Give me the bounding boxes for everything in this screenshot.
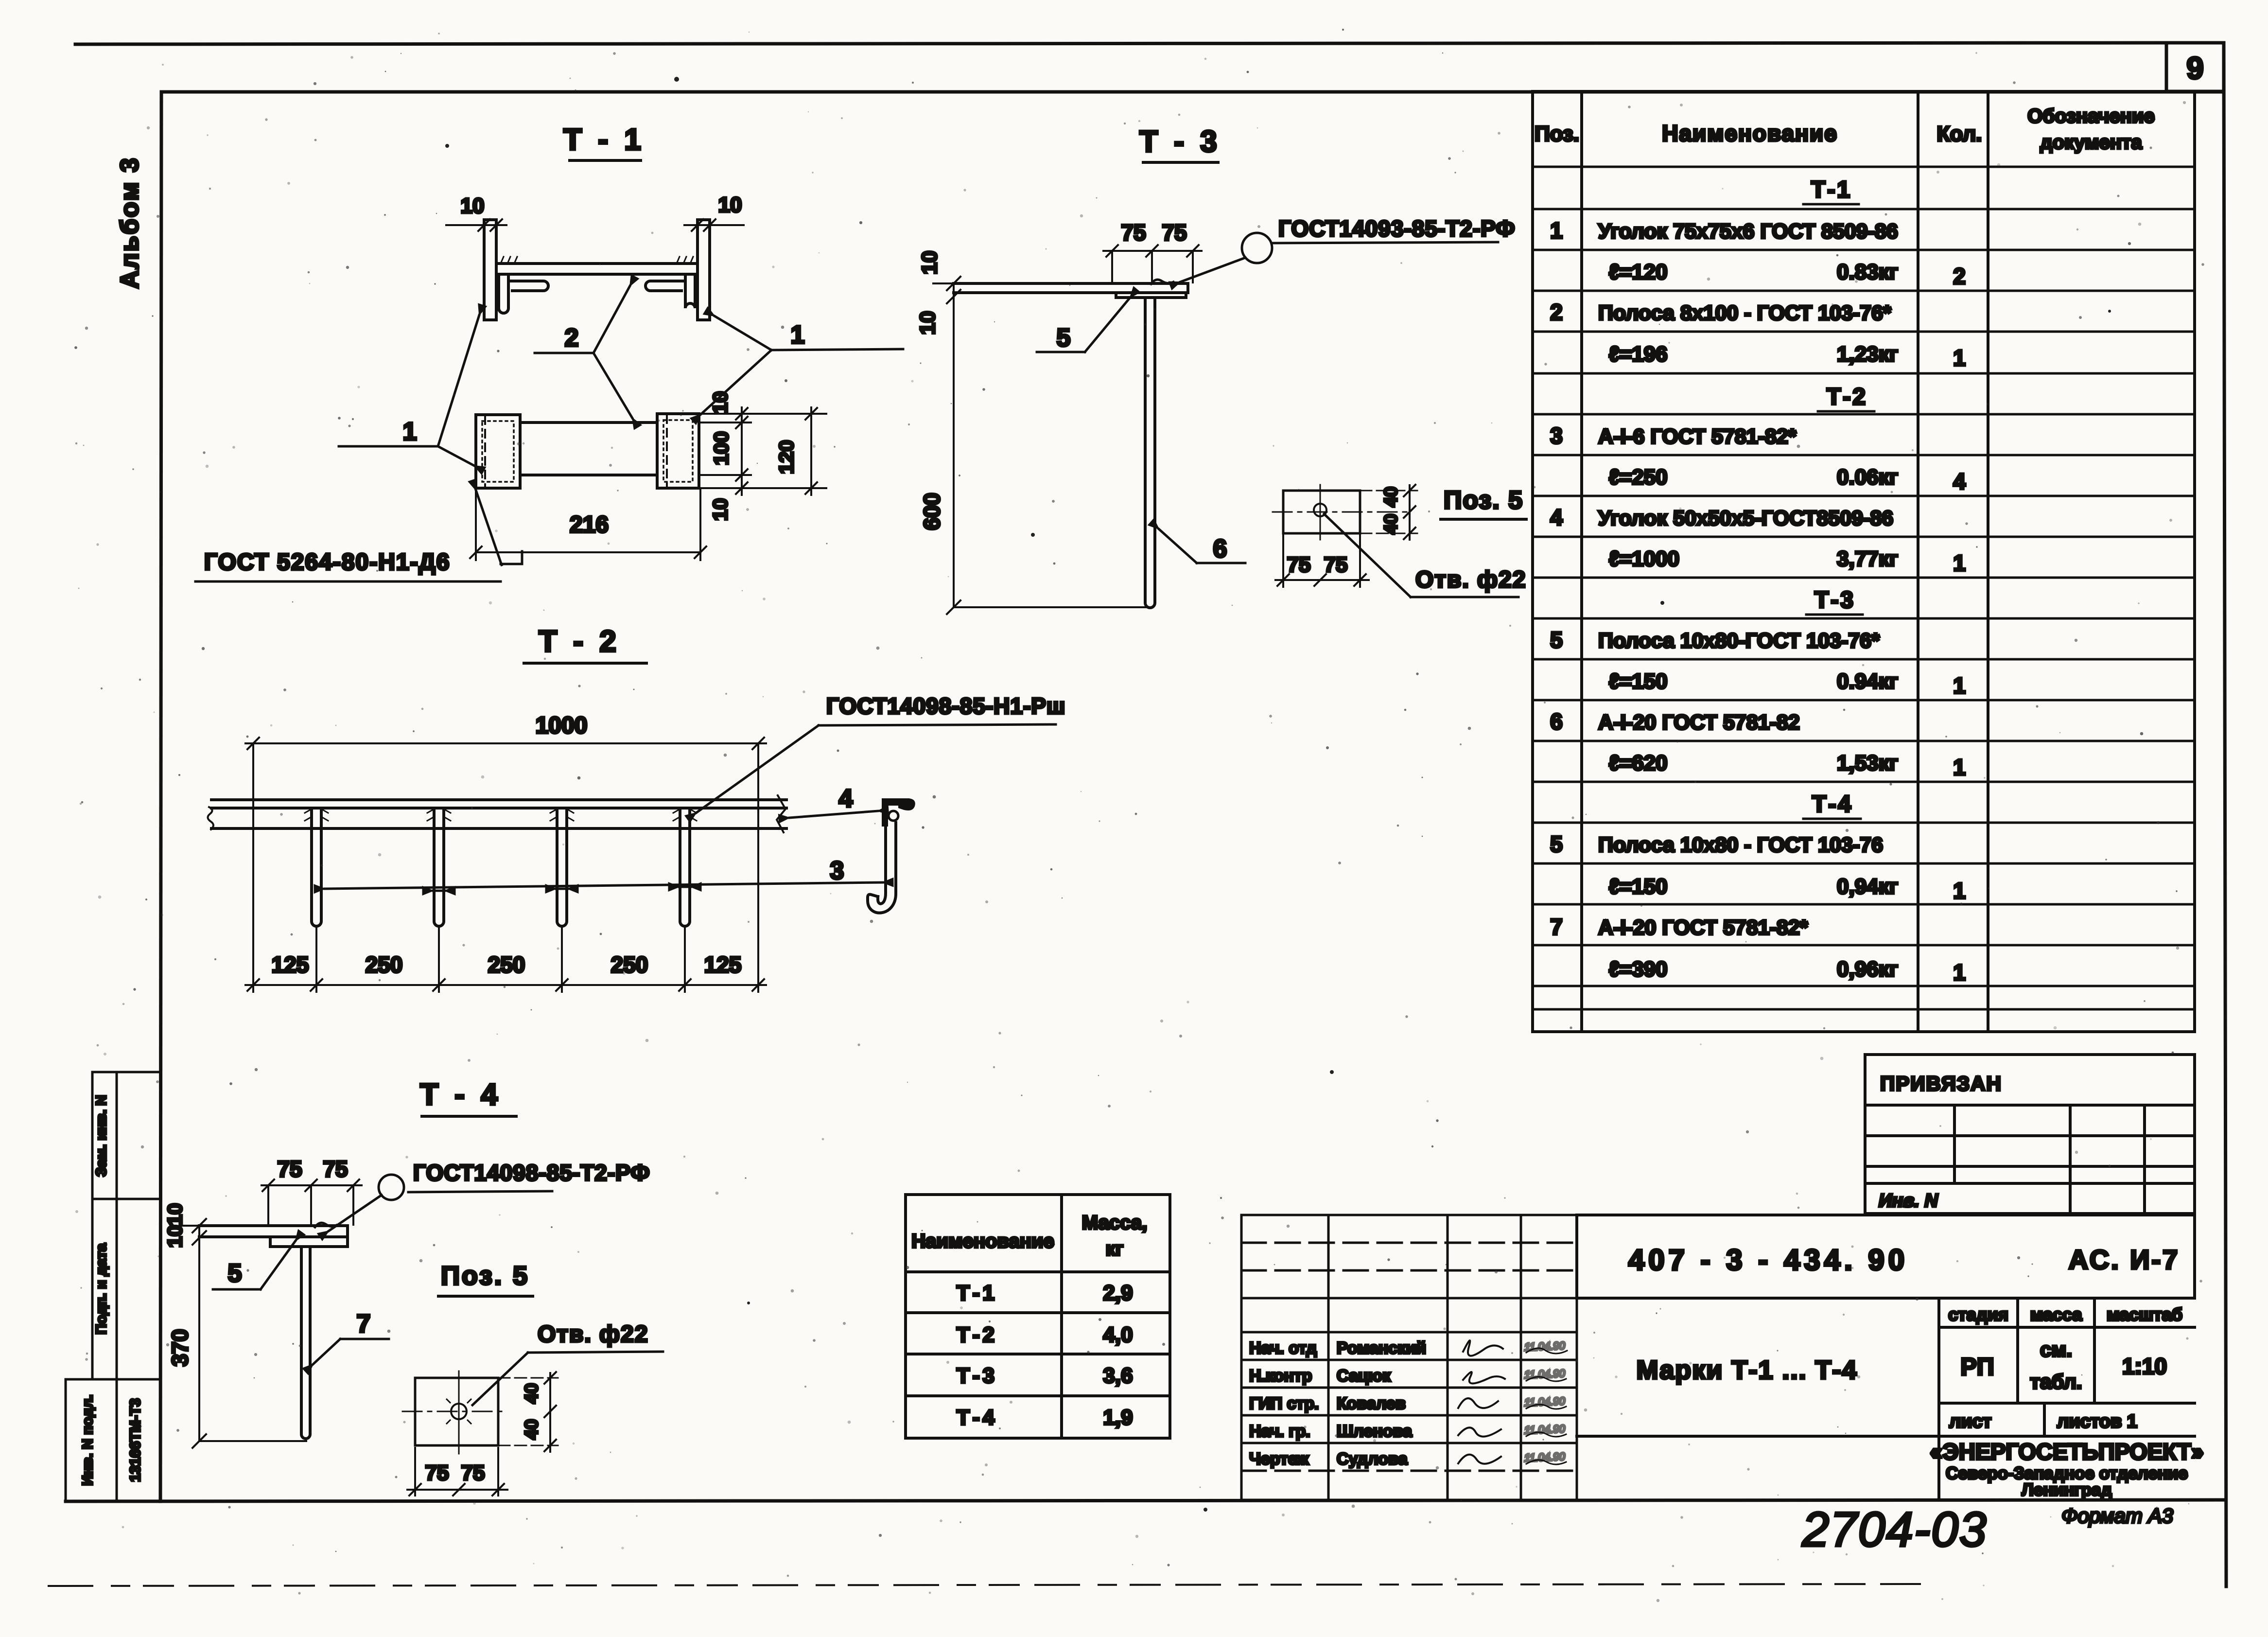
sheet row [1949,1411,2137,1432]
svg-text:Шленова: Шленова [1337,1422,1413,1441]
svg-text:100: 100 [710,431,733,465]
svg-text:ПРИВЯЗАН: ПРИВЯЗАН [1880,1072,2002,1095]
svg-text:масса: масса [2030,1304,2083,1324]
svg-text:Т-1: Т-1 [1811,177,1852,203]
svg-text:11.04.90: 11.04.90 [1524,1367,1566,1381]
svg-text:11.04.90: 11.04.90 [1524,1423,1566,1436]
svg-text:3: 3 [830,857,844,885]
svg-text:масштаб: масштаб [2107,1304,2182,1324]
svg-text:75: 75 [425,1461,449,1485]
svg-text:4: 4 [839,785,853,813]
svg-text:10: 10 [709,391,732,414]
row 6 length/mass, qty 1 [1609,751,1966,780]
T-2 anchor rod 3 [557,808,567,926]
T-3 Поз.5 plate detail rect [1273,485,1410,540]
svg-text:ℓ=150: ℓ=150 [1609,875,1668,898]
title block grid: stage/mass/scale [1577,1298,2195,1500]
T-4 weld symbol circle with leader [329,1175,404,1231]
T-3 weld symbol circle with leader [1180,233,1272,282]
T-2 view title [524,625,646,663]
svg-text:Поз. 5: Поз. 5 [441,1261,529,1290]
svg-text:Т-3: Т-3 [1814,587,1855,613]
svg-text:Марки Т-1 ... Т-4: Марки Т-1 ... Т-4 [1637,1355,1858,1385]
svg-text:0,94кг: 0,94кг [1837,875,1898,898]
parts table header [1535,106,2155,153]
svg-text:5: 5 [228,1259,242,1287]
T-3 Поз.5 hole [1314,504,1326,516]
svg-text:75: 75 [1287,553,1311,577]
svg-text:Т-2: Т-2 [1827,384,1867,410]
svg-text:1: 1 [1953,550,1966,576]
privjazan (linked) stamp box [1865,1055,2195,1214]
T-3 weld spec ГОСТ14093-85-Т2-РФ [1272,216,1515,243]
svg-text:1: 1 [1953,960,1966,985]
row 7: А-I-20 [1550,914,1808,939]
bottom page dashed edge line [49,1584,1920,1586]
signature row: ГИП стр. Ковалев [1249,1394,1566,1413]
svg-text:1:10: 1:10 [2122,1354,2167,1379]
svg-text:«ЭНЕРГОСЕТЬПРОЕКТ»: «ЭНЕРГОСЕТЬПРОЕКТ» [1930,1439,2204,1464]
svg-text:1,9: 1,9 [1103,1406,1133,1429]
svg-text:АС. И-7: АС. И-7 [2069,1244,2180,1275]
page right border line [2224,43,2226,1586]
T-3 left dims 10 10 and 600 [916,251,1151,614]
T-1 section: strip item 2 (two horizontal lines) [496,264,698,274]
T-4 weld squiggle at stem joint [315,1223,336,1227]
T-1 position label 1 (right) with leaders [701,316,903,414]
svg-text:1: 1 [1550,218,1563,243]
svg-text:листов 1: листов 1 [2057,1411,2137,1432]
svg-text:4,0: 4,0 [1103,1323,1133,1347]
T-1 section: left angle item 1 [499,276,548,313]
svg-text:10: 10 [916,311,940,335]
svg-text:Инв. N подл.: Инв. N подл. [80,1394,96,1485]
svg-text:10: 10 [709,498,732,521]
row 4: Уголок 50х50х5 [1550,505,1893,530]
svg-text:11.04.90: 11.04.90 [1524,1339,1566,1353]
svg-text:11.04.90: 11.04.90 [1524,1395,1566,1408]
svg-text:ℓ=620: ℓ=620 [1609,751,1668,775]
svg-text:ℓ=250: ℓ=250 [1609,465,1668,489]
svg-text:Альбом 3: Альбом 3 [116,157,144,289]
T-1 dim 216 [470,490,706,560]
row 1 length/mass, qty 2 [1609,260,1966,289]
svg-text:75: 75 [323,1156,348,1181]
svg-text:ℓ=196: ℓ=196 [1609,342,1668,366]
T-1 section: right angle item 1 [646,276,695,308]
row 5: Полоса 10х80 [1550,627,1880,652]
svg-text:Т-4: Т-4 [957,1406,997,1429]
sheet number box "9" top right [2166,43,2224,91]
T-3 Поз.5 dim 75 75 bottom [1275,533,1369,587]
svg-text:3,6: 3,6 [1103,1364,1133,1388]
svg-text:Ковалев: Ковалев [1337,1394,1406,1413]
T-4 Поз.5 dim 75 75 bottom [407,1448,507,1496]
svg-text:216: 216 [570,512,609,538]
svg-text:Т-3: Т-3 [957,1364,997,1388]
T-2 bottom dims 125/250/250/250/125 [245,926,766,992]
T-1 view title [563,123,645,160]
mass row Т-1 [957,1281,1133,1305]
svg-text:75: 75 [1162,220,1186,245]
row 1: Уголок 75х75х6 [1550,218,1898,243]
svg-text:1: 1 [1953,755,1966,780]
svg-text:75: 75 [1121,220,1146,245]
svg-text:Ленинград: Ленинград [2022,1480,2111,1499]
T-2 weld spec ГОСТ14098-85-Н1-Рш with leader [696,693,1065,813]
svg-text:125: 125 [704,952,742,977]
svg-text:600: 600 [919,493,944,530]
mass summary table grid [906,1195,1170,1438]
row 5 length/mass, qty 1 [1609,669,1966,698]
T-4 stem item 7 (rod) [301,1247,310,1439]
T-1 dim 10 (left plate thickness) [446,194,506,231]
svg-text:Чертеж: Чертеж [1249,1450,1309,1468]
mass row Т-3 [957,1364,1133,1388]
svg-text:ГОСТ14093-85-Т2-РФ: ГОСТ14093-85-Т2-РФ [1278,216,1515,241]
svg-text:Романский: Романский [1337,1339,1426,1357]
svg-text:Наименование: Наименование [1662,121,1837,146]
T-3 position label 6 with leader [1159,529,1245,563]
svg-text:120: 120 [775,440,798,474]
row 2: Полоса 8х100 [1550,299,1891,325]
svg-text:Поз. 5: Поз. 5 [1444,486,1523,514]
row 3 length/mass, qty 4 [1609,465,1966,494]
T-2 position label 4 with arrow line [789,785,878,818]
svg-text:1: 1 [791,321,805,349]
T-2 strip item 4 (edge view, three lines) [208,795,786,832]
svg-text:40: 40 [522,1419,542,1440]
svg-text:0.94кг: 0.94кг [1837,669,1898,693]
svg-text:7: 7 [1550,914,1563,939]
T-3 view title [1139,125,1221,162]
T-2 position label 3 with arrow line [325,857,883,891]
svg-text:40: 40 [522,1383,542,1404]
svg-text:табл.: табл. [2030,1370,2082,1393]
svg-text:1,23кг: 1,23кг [1837,342,1898,366]
svg-text:125: 125 [272,952,309,977]
T-4 lower bar under plate [270,1237,348,1247]
T-3 stem item 6 (rod) [1145,298,1155,608]
svg-text:Подп. и дата: Подп. и дата [93,1243,109,1335]
T-2 dim 1000 top [245,713,766,992]
svg-text:ℓ=150: ℓ=150 [1609,669,1668,693]
svg-text:10: 10 [163,1225,186,1248]
svg-text:РП: РП [1960,1353,1994,1380]
svg-text:А-I-20 ГОСТ 5781-82*: А-I-20 ГОСТ 5781-82* [1598,916,1808,939]
signature row: Нач. отд Романский [1249,1339,1567,1357]
svg-text:1: 1 [403,418,417,446]
svg-text:0.06кг: 0.06кг [1837,465,1898,489]
svg-text:Т - 2: Т - 2 [539,625,620,658]
mass row Т-4 [957,1406,1133,1429]
svg-text:Наименование: Наименование [911,1231,1054,1252]
left margin stamp box "Зам.инв.N" [92,1072,160,1199]
svg-text:Сацюк: Сацюк [1337,1367,1391,1385]
svg-text:5: 5 [1550,627,1563,652]
svg-text:2: 2 [1550,299,1563,325]
row 3: А-I-6 [1550,423,1797,448]
T-1 section: left end plate (item 1 flange) [484,220,496,320]
svg-text:2: 2 [565,324,579,352]
T-3 Поз.5 detail title [1441,486,1526,519]
parts table subtitle Т-3 [1806,587,1863,615]
svg-text:7: 7 [357,1310,371,1338]
svg-text:2: 2 [1953,264,1966,289]
T-4 Поз.5 detail title [438,1261,533,1296]
svg-text:см.: см. [2040,1338,2072,1361]
svg-text:документа: документа [2040,132,2142,153]
row 6: А-I-20 [1550,709,1799,734]
T-1 right dim 120 [775,407,817,495]
svg-text:10: 10 [461,194,485,218]
svg-text:5: 5 [1057,324,1071,352]
svg-text:11.04.90: 11.04.90 [1524,1450,1566,1464]
row 5b: Полоса 10х80 [1550,831,1883,857]
left margin stamp box "Инв.N подл." / "13166ТМ-Т3" [66,1379,160,1501]
svg-text:2704-03: 2704-03 [1802,1502,1988,1557]
svg-text:250: 250 [611,952,648,977]
row 5b length/mass, qty 1 [1609,875,1966,903]
svg-text:75: 75 [461,1461,485,1485]
svg-text:Обозначение: Обозначение [2027,106,2154,127]
svg-text:Т-4: Т-4 [1812,792,1853,817]
svg-text:ГОСТ14098-85-Н1-Рш: ГОСТ14098-85-Н1-Рш [826,693,1065,719]
svg-text:Н.контр: Н.контр [1249,1367,1312,1385]
T-4 Отв. ф22 label with leader [472,1321,663,1405]
T-2 anchor hook detail (items 3/4) [868,798,915,913]
svg-text:лист: лист [1949,1411,1991,1432]
row 4 length/mass, qty 1 [1609,547,1966,576]
svg-text:40: 40 [1381,514,1401,534]
svg-text:10: 10 [163,1203,186,1226]
svg-text:Кол.: Кол. [1937,122,1982,146]
svg-text:0,96кг: 0,96кг [1837,957,1898,981]
svg-text:4: 4 [1953,469,1966,494]
T-3 Отв. ф22 label with leader [1324,514,1526,597]
row 7 length/mass, qty 1 [1609,957,1966,985]
svg-text:Полоса 8х100 - ГОСТ 103-76*: Полоса 8х100 - ГОСТ 103-76* [1598,301,1891,325]
svg-text:Нач. гр.: Нач. гр. [1249,1422,1310,1441]
svg-text:стадия: стадия [1948,1304,2008,1324]
svg-text:9: 9 [2186,51,2204,86]
T-1 position label 1 (left) with leaders [339,315,479,466]
T-1 weld spec ГОСТ 5264-80-Н1-Д6 with leader [195,490,522,581]
left margin stamp box "Подп. и дата" [92,1199,160,1379]
T-4 position label 5 with leader [213,1241,296,1289]
svg-text:250: 250 [488,952,525,977]
parts table subtitle Т-2 [1818,384,1874,411]
svg-text:Инв. N: Инв. N [1879,1191,1938,1211]
svg-text:ГОСТ14098-85-Т2-РФ: ГОСТ14098-85-Т2-РФ [413,1160,650,1185]
svg-text:6: 6 [1213,535,1227,563]
T-4 view title [420,1078,516,1116]
T-4 weld spec ГОСТ14098-85-Т2-РФ [408,1160,650,1192]
T-3 dims 75 75 top [1103,220,1202,282]
T-3 top plate item 5 (edge view) [954,283,1188,293]
T-4 dims 75 75 top [262,1156,362,1225]
T-3 weld squiggle at stem joint [1151,280,1173,284]
T-1 plan: right end plate with weld hatch [657,414,699,488]
svg-text:10: 10 [718,193,742,217]
svg-text:Нач. отд: Нач. отд [1249,1339,1317,1357]
svg-text:1,53кг: 1,53кг [1837,751,1898,775]
T-3 lower bar under plate [1116,293,1186,298]
svg-text:кг: кг [1106,1238,1124,1260]
svg-text:1: 1 [1953,878,1966,903]
parts list table grid [1533,91,2195,1032]
svg-text:1: 1 [1953,345,1966,370]
svg-text:Отв. ф22: Отв. ф22 [1415,567,1526,593]
svg-text:ГИП стр.: ГИП стр. [1249,1394,1319,1413]
T-4 Поз.5 plate detail rect [402,1371,507,1454]
T-3 Поз.5 dim 40/40 right [1360,485,1417,540]
T-2 anchor rod 1 [312,808,321,926]
T-1 plan: strip item 2 edges [520,422,657,475]
T-1 dim 10 (right plate thickness) [684,193,744,231]
svg-text:Т - 3: Т - 3 [1139,125,1221,158]
svg-text:ℓ=120: ℓ=120 [1609,260,1668,284]
T-2 anchor rod 4 [680,808,690,926]
svg-text:ГОСТ 5264-80-Н1-Д6: ГОСТ 5264-80-Н1-Д6 [204,549,450,575]
svg-text:Т-2: Т-2 [957,1323,997,1347]
signature row: Нач. гр. Шленова [1249,1422,1566,1441]
svg-text:А-I-20 ГОСТ 5781-82: А-I-20 ГОСТ 5781-82 [1598,711,1800,734]
svg-text:ℓ=1000: ℓ=1000 [1609,547,1679,571]
svg-text:Т - 4: Т - 4 [420,1078,501,1111]
svg-text:3,77кг: 3,77кг [1837,547,1898,571]
svg-text:Формат А3: Формат А3 [2061,1504,2173,1527]
signature row: Чертеж Судлова [1249,1450,1566,1468]
svg-text:Уголок 50х50х5-ГОСТ8509-86: Уголок 50х50х5-ГОСТ8509-86 [1598,507,1893,530]
row 2 length/mass, qty 1 [1609,342,1966,370]
svg-text:2,9: 2,9 [1103,1281,1133,1305]
T-2 weld ticks at anchor tops [305,809,697,821]
mass row Т-2 [957,1323,1133,1347]
svg-text:А-I-6 ГОСТ 5781-82*: А-I-6 ГОСТ 5781-82* [1598,425,1797,448]
svg-text:Масса,: Масса, [1082,1212,1147,1233]
page top border line [75,43,2166,44]
signature table grid [1241,1215,1577,1500]
svg-text:Судлова: Судлова [1337,1450,1408,1468]
svg-text:75: 75 [277,1156,302,1181]
T-3 position label 5 with leader [1037,298,1130,352]
svg-text:1: 1 [1953,673,1966,698]
mass value см.табл. [2030,1338,2082,1393]
T-1 position label 2 (center) with leaders [535,286,632,418]
T-1 section: right end plate (item 1 flange) [698,220,710,320]
svg-text:5: 5 [1550,831,1563,857]
T-1 plan: left end plate with weld hatch [476,415,520,488]
svg-text:250: 250 [366,952,403,977]
svg-text:Полоса 10х80 - ГОСТ 103-76: Полоса 10х80 - ГОСТ 103-76 [1598,833,1883,857]
svg-text:Т-1: Т-1 [957,1281,997,1305]
svg-text:3: 3 [1550,423,1563,448]
T-4 Поз.5 dim 40/40 right [498,1372,558,1452]
svg-text:ℓ=390: ℓ=390 [1609,957,1668,981]
parts table subtitle Т-1 [1803,177,1859,204]
signature dates column [1524,1339,1566,1464]
svg-text:Зам. инв. N: Зам. инв. N [93,1095,109,1177]
svg-text:407 - 3 - 434. 90: 407 - 3 - 434. 90 [1628,1244,1908,1276]
organization cell [1930,1439,2204,1499]
svg-text:370: 370 [167,1329,192,1367]
signature row: Н.контр Сацюк [1249,1367,1566,1385]
svg-text:Поз.: Поз. [1535,122,1579,146]
T-4 Поз.5 hole with rays [447,1394,471,1428]
svg-text:Отв. ф22: Отв. ф22 [538,1321,648,1347]
T-2 anchor rod 2 [434,808,444,926]
T-4 position label 7 with leader [313,1310,389,1364]
parts table subtitle Т-4 [1803,792,1861,819]
svg-text:4: 4 [1550,505,1563,530]
svg-text:Т - 1: Т - 1 [563,123,645,157]
mass table header [911,1212,1147,1260]
svg-text:75: 75 [1324,553,1348,577]
T-4 left dims 10 10 and 370 [163,1203,306,1448]
title block document number strip [1577,1215,2195,1298]
svg-text:1000: 1000 [536,713,588,739]
svg-text:0.83кг: 0.83кг [1837,260,1898,284]
svg-text:6: 6 [1550,709,1563,734]
svg-text:Полоса 10х80-ГОСТ 103-76*: Полоса 10х80-ГОСТ 103-76* [1598,629,1880,652]
T-1 weld ticks on strip [501,257,693,264]
svg-text:10: 10 [918,251,942,275]
svg-text:13166ТМ-Т3: 13166ТМ-Т3 [127,1398,143,1482]
T-4 top plate item 5 (edge view) [199,1226,348,1237]
svg-text:Уголок 75х75х6 ГОСТ 8509-86: Уголок 75х75х6 ГОСТ 8509-86 [1598,220,1898,243]
svg-text:40: 40 [1381,487,1401,507]
T-1 right dims 10/100/10 [700,391,826,521]
